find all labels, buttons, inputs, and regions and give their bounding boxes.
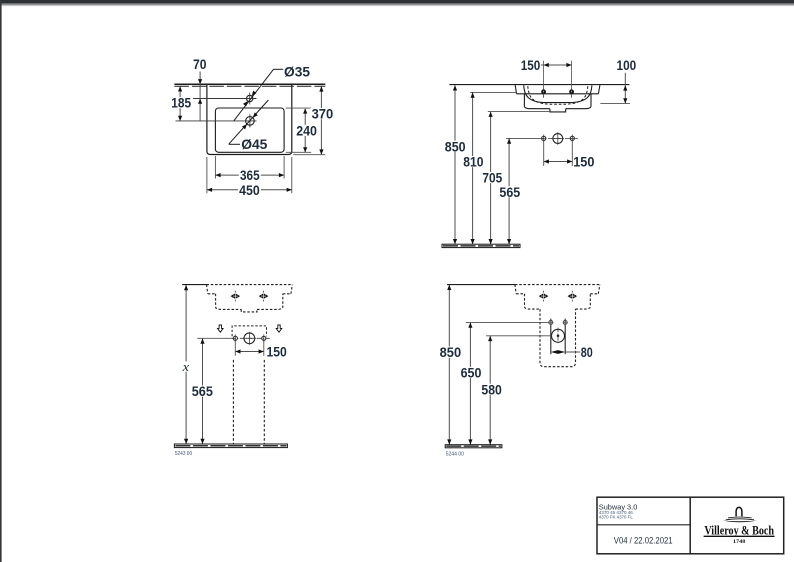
svg-text:70: 70 bbox=[193, 56, 207, 72]
v4 drain pipe right bbox=[564, 319, 566, 355]
v3 console dashed box bbox=[232, 326, 266, 336]
v1 dim 185 bbox=[179, 86, 181, 121]
v4 bolt symbol right bbox=[570, 294, 575, 299]
v4 pipe hole right bbox=[563, 320, 567, 324]
v1 basin outer rect bbox=[207, 85, 292, 155]
v3 outline left underbody bbox=[216, 294, 242, 310]
svg-text:850: 850 bbox=[445, 138, 466, 154]
v1 ext 365 left bbox=[214, 156, 216, 179]
v1 ext 450 left bbox=[206, 157, 208, 193]
v2 dim 705 bbox=[490, 112, 492, 245]
v1 ext 370 bottom bbox=[293, 154, 325, 156]
svg-text:Villeroy & Boch: Villeroy & Boch bbox=[704, 523, 774, 537]
v4 outline right underbody bbox=[576, 294, 591, 309]
v2 drain box bbox=[550, 109, 566, 112]
v1 dim 450 bbox=[207, 189, 292, 191]
v3 siphon circle bbox=[244, 333, 255, 344]
v3 fixing hole left bbox=[233, 336, 237, 340]
v3 outline right underbody bbox=[257, 294, 283, 310]
v4 drain pipe left bbox=[550, 319, 552, 355]
v4 ext 580 bbox=[486, 335, 551, 337]
v1 dim 370 bbox=[320, 86, 322, 154]
svg-text:Ø35: Ø35 bbox=[284, 64, 310, 80]
v2 dim 565 bbox=[508, 139, 510, 245]
v2 ext 150 lower left bbox=[543, 142, 545, 166]
v2 ext 100 bottom bbox=[600, 102, 630, 104]
v4 outlet circle bbox=[552, 329, 565, 342]
svg-text:100: 100 bbox=[617, 57, 637, 73]
logo arch bbox=[736, 507, 742, 516]
v1 hole D45 circle bbox=[246, 117, 255, 126]
v1 D45 leader bbox=[229, 143, 241, 145]
v2 ext 705 bbox=[488, 111, 550, 113]
v1 hole D35 circle bbox=[247, 95, 253, 101]
v1 dim 70 bbox=[199, 72, 201, 121]
v4 dim 80 bbox=[551, 350, 565, 354]
svg-text:240: 240 bbox=[296, 123, 317, 139]
v4 ext 650 bbox=[466, 321, 549, 323]
v2 siphon circle bbox=[553, 134, 563, 144]
title block vertical divider bbox=[689, 497, 691, 554]
v4 outline top bbox=[515, 284, 600, 286]
svg-text:1748: 1748 bbox=[733, 539, 746, 545]
v1 D35 centerline bbox=[193, 98, 257, 100]
v4 dim 650 bbox=[469, 323, 471, 445]
svg-text:5244 00: 5244 00 bbox=[446, 451, 464, 457]
v4 outline left underbody bbox=[525, 294, 541, 309]
v2 dim 850 bbox=[454, 85, 456, 244]
v4 outline left jog bbox=[516, 293, 524, 295]
v4 pipe hole left bbox=[549, 320, 553, 324]
svg-text:V04 / 22.02.2021: V04 / 22.02.2021 bbox=[614, 535, 673, 546]
v3 fixing hole right bbox=[262, 336, 266, 340]
v2 wall line bbox=[449, 84, 629, 86]
v2 rim bottom line bbox=[517, 93, 599, 95]
v2 ext 565 bbox=[506, 137, 540, 139]
svg-text:150: 150 bbox=[266, 344, 286, 360]
v3 dim 150 bbox=[235, 351, 263, 353]
v3 holes line bbox=[197, 337, 231, 339]
v2 hole right centerline bbox=[571, 61, 573, 88]
v2 ext 810 bbox=[470, 91, 515, 93]
v1 basin inner rect bbox=[215, 108, 284, 152]
v2 floor bbox=[442, 244, 520, 247]
v4 outline right jog bbox=[590, 293, 598, 295]
v2 underbody bbox=[524, 94, 591, 109]
v3 outline left rim bbox=[207, 285, 208, 294]
v2 dim 100 bbox=[624, 73, 626, 104]
v2 rim right edge bbox=[598, 85, 600, 94]
svg-text:4370 FK 4370 FL: 4370 FK 4370 FL bbox=[599, 515, 634, 520]
v2 ext 150 lower right bbox=[571, 142, 573, 166]
v1 label D45 bbox=[240, 138, 269, 149]
svg-text:365: 365 bbox=[240, 167, 260, 183]
svg-text:650: 650 bbox=[461, 365, 482, 381]
v3 bolt symbol left bbox=[233, 294, 238, 299]
v2 dim 810 bbox=[472, 93, 474, 245]
v2 fixing hole left bbox=[542, 136, 546, 140]
v2 hole left centerline bbox=[543, 61, 545, 88]
v3 dim 565 bbox=[202, 339, 204, 444]
svg-text:5243 00: 5243 00 bbox=[175, 451, 192, 457]
v1 dim 365 bbox=[215, 174, 284, 176]
v2 bowl hidden curve bbox=[528, 86, 588, 104]
title block horizontal divider bbox=[597, 524, 690, 526]
svg-text:80: 80 bbox=[581, 344, 593, 360]
v3 outline right jog bbox=[283, 293, 291, 295]
svg-text:580: 580 bbox=[481, 381, 502, 397]
v4 siphon cover dashed bbox=[540, 309, 576, 367]
v1 ext 240 top bbox=[286, 107, 311, 109]
logo saucer arcs bbox=[728, 516, 752, 519]
v3 outline top bbox=[207, 284, 293, 286]
v3 outline right rim bbox=[291, 285, 292, 294]
v3 bolt symbol right bbox=[261, 294, 266, 299]
v1 ext 240 bottom bbox=[286, 151, 311, 153]
v1 D45 vertical tick bbox=[249, 114, 251, 127]
page top bar bbox=[0, 0, 794, 3]
v3 outline drain step bbox=[241, 309, 257, 312]
v2 fixing hole right bbox=[570, 136, 574, 140]
v3 floor bbox=[174, 444, 287, 448]
v4 dim 850 bbox=[448, 285, 450, 445]
v3 ext 150 right bbox=[263, 341, 265, 356]
logo underline bbox=[704, 535, 775, 537]
v1 ext 365 right bbox=[283, 156, 285, 179]
svg-text:x: x bbox=[181, 360, 189, 374]
v2 rim left edge bbox=[515, 85, 516, 94]
v1 wall hidden dashed line bbox=[174, 85, 325, 87]
v1 dim 240 bbox=[304, 109, 306, 152]
v4 dim 580 bbox=[489, 336, 491, 445]
v3 hollow arrow right bbox=[276, 325, 282, 332]
svg-text:150: 150 bbox=[573, 154, 594, 170]
svg-text:370: 370 bbox=[312, 106, 334, 122]
v4 ext top bbox=[447, 284, 515, 286]
svg-text:Ø45: Ø45 bbox=[241, 136, 267, 152]
v4 bolt symbol left bbox=[541, 294, 546, 299]
v2 bowl front curve bbox=[524, 85, 592, 102]
v1 D45 centerline bbox=[176, 120, 257, 122]
title block box bbox=[597, 497, 784, 554]
v4 outline right rim bbox=[598, 285, 600, 294]
svg-text:185: 185 bbox=[171, 95, 191, 111]
svg-text:850: 850 bbox=[440, 344, 462, 360]
svg-text:150: 150 bbox=[521, 57, 541, 73]
v3 pedestal dashed right bbox=[263, 360, 265, 444]
v4 floor bbox=[445, 445, 502, 448]
v2 mounting hole left bbox=[542, 90, 546, 94]
page left bar bbox=[0, 0, 2, 562]
svg-text:450: 450 bbox=[239, 182, 260, 198]
v3 ext top bbox=[182, 284, 207, 286]
v4 outline left rim bbox=[515, 285, 516, 294]
v1 D35 vertical tick bbox=[249, 93, 251, 105]
v2 dim 150 top bbox=[541, 64, 572, 66]
v1 ext 450 right bbox=[291, 157, 293, 193]
svg-text:565: 565 bbox=[192, 383, 213, 399]
v2 dim 150 lower bbox=[544, 161, 573, 163]
v2 mounting hole right bbox=[570, 90, 574, 94]
v3 ext 150 left bbox=[234, 341, 236, 356]
svg-text:810: 810 bbox=[463, 154, 483, 170]
svg-text:565: 565 bbox=[499, 184, 520, 200]
v3 hollow arrow left bbox=[218, 325, 224, 332]
v3 outline left jog bbox=[208, 293, 216, 295]
v3 pedestal dashed left bbox=[232, 360, 234, 444]
v1 wall top line bbox=[174, 83, 325, 85]
v3 dim x bbox=[185, 285, 187, 444]
v1 D35 leader bbox=[274, 68, 284, 70]
